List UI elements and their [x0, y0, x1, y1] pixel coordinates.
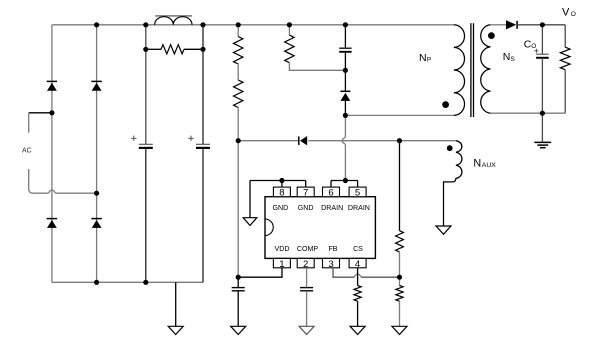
wire VDD vertical	[237, 141, 239, 278]
wire sense upper	[399, 141, 401, 231]
wire VDD to pin1	[238, 268, 282, 277]
ground VDD cap	[231, 326, 246, 334]
wire output ground stem	[541, 113, 543, 142]
diode D1	[47, 81, 57, 90]
transformer T1 aux winding	[444, 141, 462, 226]
wire CS resistor to ground	[357, 301, 359, 326]
node R1 right	[200, 47, 205, 52]
wire DRAIN pins bracket	[331, 181, 358, 188]
node output top	[540, 22, 545, 27]
capacitor C3 snubber	[339, 48, 351, 52]
wire sense middle	[399, 252, 401, 277]
svg-text:N: N	[503, 51, 511, 63]
svg-text:GND: GND	[298, 204, 314, 212]
wire between R2 R3	[237, 64, 239, 80]
wire diode to output node	[518, 24, 565, 26]
svg-text:2: 2	[303, 259, 308, 270]
ground aux winding	[436, 226, 451, 234]
wire secondary bottom	[490, 112, 565, 114]
wire AC terminal 1	[29, 113, 52, 133]
svg-text:FB: FB	[328, 245, 337, 253]
node FB divider	[397, 275, 402, 280]
svg-text:CS: CS	[353, 245, 363, 253]
resistor R1 damping	[146, 45, 203, 54]
transformer T1 secondary winding	[481, 25, 491, 113]
ground output earth	[534, 142, 551, 147]
svg-text:GND: GND	[273, 204, 289, 212]
wire R3 to bias node	[237, 108, 239, 141]
svg-text:V: V	[562, 7, 570, 19]
node top of D2 column	[94, 22, 99, 27]
node bottom rail C1	[143, 280, 148, 285]
resistor R8 load	[560, 47, 570, 69]
wire secondary top	[490, 24, 506, 26]
wire output cap stem top	[541, 25, 543, 54]
svg-text:O: O	[531, 43, 536, 50]
svg-text:AUX: AUX	[482, 162, 496, 169]
resistor R6 sense lower	[396, 286, 403, 302]
wire bias left segment	[238, 140, 299, 142]
wire top rail	[52, 24, 454, 26]
wire snubber R to bottom	[289, 63, 345, 71]
wire load resistor bottom	[564, 70, 566, 114]
label C2 plus	[188, 136, 193, 141]
svg-text:DRAIN: DRAIN	[321, 204, 343, 212]
svg-text:7: 7	[303, 187, 308, 198]
node pin8 bracket	[279, 178, 284, 183]
inductor L1	[155, 17, 192, 25]
node L1 right	[200, 22, 205, 27]
diode D2	[91, 81, 101, 90]
wire startup chain upper	[237, 25, 239, 37]
capacitor Co output	[536, 54, 549, 58]
label Vo	[562, 7, 576, 19]
svg-text:DRAIN: DRAIN	[348, 204, 370, 212]
wire GND bracket stem	[249, 181, 251, 218]
U1 bottom pin numbers	[279, 259, 361, 270]
svg-text:S: S	[510, 56, 515, 63]
node bias-sense junction	[397, 138, 402, 143]
wire GND pins bracket	[250, 181, 306, 188]
U1 top pin boxes	[273, 187, 366, 197]
wire VDD cap stem top	[237, 277, 239, 287]
inductor L1 core bar	[155, 15, 192, 17]
wire C2 vertical	[202, 25, 204, 283]
svg-text:AC: AC	[22, 148, 32, 155]
wire bridge left vertical	[51, 25, 53, 283]
resistor R7 CS	[354, 286, 361, 302]
node snubber R top	[287, 22, 292, 27]
label Co	[524, 38, 539, 52]
resistor R3 startup	[234, 80, 243, 108]
node output bottom	[540, 111, 545, 116]
svg-text:5: 5	[355, 187, 360, 198]
svg-text:VDD: VDD	[275, 245, 290, 253]
svg-text:COMP: COMP	[297, 245, 319, 253]
wire COMP cap to ground	[306, 291, 308, 327]
wire bridge right vertical	[96, 25, 98, 283]
node AC2-bridge junction	[94, 191, 99, 196]
ground COMP cap	[299, 326, 314, 334]
capacitor C1	[139, 144, 153, 148]
wire load resistor top	[564, 25, 566, 47]
wire output cap stem bottom	[541, 58, 543, 113]
svg-text:1: 1	[279, 259, 284, 270]
ground CS	[350, 326, 365, 334]
node AC1-bridge junction	[49, 110, 54, 115]
wire snubber C stem bottom	[344, 52, 346, 71]
diode D6 bias	[299, 136, 307, 145]
transformer T1 core	[471, 23, 474, 117]
diode D5 clamp	[340, 91, 350, 101]
wire sense lower stem	[399, 277, 401, 285]
wire FB	[333, 268, 400, 277]
U1 top pin numbers	[279, 187, 360, 198]
op-amp U1 body	[265, 197, 375, 259]
wire AC terminal 2	[29, 169, 97, 193]
wire snubber C stem top	[344, 25, 346, 48]
node startup chain top	[236, 22, 241, 27]
node snubber bottom	[343, 68, 348, 73]
svg-text:N: N	[473, 158, 481, 170]
wire sense to ground	[399, 301, 401, 326]
wire clamp diode to drain node	[344, 100, 346, 115]
wire CS stem	[357, 268, 359, 286]
diode D7 output	[506, 20, 517, 29]
U1 bottom pin boxes	[273, 258, 366, 267]
wire bottom rail	[52, 281, 203, 283]
wire snubber to clamp diode	[344, 70, 346, 91]
wire primary bottom	[345, 114, 453, 116]
wire COMP stem	[306, 268, 308, 288]
label Np	[419, 52, 432, 64]
T1 secondary polarity dot	[488, 32, 495, 39]
svg-text:N: N	[419, 52, 427, 64]
ground primary-side	[168, 326, 183, 334]
node L1 left	[143, 22, 148, 27]
node drain-primary junction	[343, 113, 348, 118]
capacitor C2	[196, 144, 210, 148]
resistor R2 startup	[234, 37, 243, 65]
node bias-VDD junction	[236, 138, 241, 143]
svg-text:6: 6	[328, 187, 333, 198]
label Naux	[473, 158, 496, 170]
node drain bracket	[343, 178, 348, 183]
svg-text:O: O	[571, 11, 576, 18]
node snubber C top	[343, 22, 348, 27]
wire bias to aux winding	[400, 140, 456, 142]
T1 primary polarity dot	[442, 101, 449, 108]
wire snubber R upper	[288, 25, 290, 35]
diode D3	[47, 219, 57, 228]
U1 top pin labels	[273, 204, 370, 212]
wire drain vertical with hop	[342, 115, 345, 180]
resistor R4 snubber	[285, 35, 294, 63]
transformer T1 primary winding	[454, 25, 465, 116]
node R1 left	[143, 47, 148, 52]
U1 bottom pin labels	[275, 245, 364, 253]
wire primary ground stem	[175, 282, 177, 326]
T1 aux polarity dot	[447, 145, 453, 151]
capacitor C5 COMP	[300, 288, 313, 291]
capacitor C4 VDD	[232, 288, 245, 291]
node VDD junction	[236, 275, 241, 280]
label Ns	[503, 51, 516, 63]
wire VDD cap stem bottom	[237, 291, 239, 327]
svg-text:P: P	[427, 57, 432, 64]
label AC	[22, 148, 32, 155]
node bottom rail D4	[94, 280, 99, 285]
label C1 plus	[131, 136, 136, 141]
diode D4	[91, 219, 101, 228]
wire C1 vertical	[145, 25, 147, 283]
svg-text:8: 8	[279, 187, 284, 198]
ground sense divider	[392, 326, 407, 334]
ground IC GND	[243, 218, 257, 226]
resistor R5 sense upper	[396, 231, 404, 252]
wire bias right segment	[308, 140, 399, 142]
